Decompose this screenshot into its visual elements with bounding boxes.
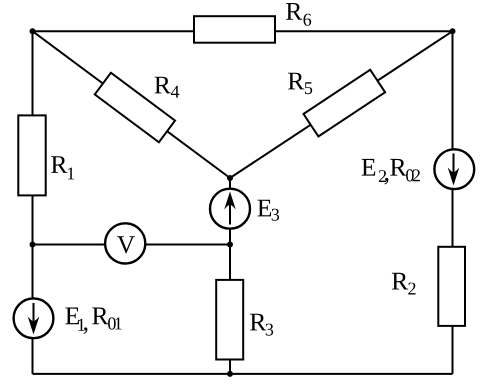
wire voltmeter branch: [33, 244, 231, 246]
node bottom-mid: [227, 371, 233, 377]
source E2, R02: [434, 149, 474, 189]
resistor R3: [216, 280, 243, 360]
arrow E1 (current direction): [33, 303, 35, 325]
resistor R1: [18, 115, 45, 195]
node left-mid: [30, 242, 36, 248]
node top-left: [30, 28, 36, 34]
label E3: [258, 200, 280, 221]
node top-right: [450, 28, 456, 34]
node middle (R4/R5/E3 junction): [227, 175, 233, 181]
resistor R6: [194, 16, 275, 43]
label V: [117, 236, 135, 253]
label E2, R02: [362, 159, 420, 185]
wire diagonal left (R4 branch): [33, 31, 231, 178]
source E1, R01: [14, 298, 54, 338]
wire top rail: [33, 30, 453, 32]
wire left vertical: [32, 31, 34, 374]
wire bottom rail: [33, 373, 453, 375]
resistor R2: [438, 247, 465, 326]
arrow E3 (current direction): [229, 198, 231, 225]
label E1, R01: [65, 308, 121, 334]
voltmeter V: [105, 223, 145, 263]
label R3: [250, 314, 273, 336]
resistor R4: [95, 73, 175, 142]
label R1: [51, 156, 74, 179]
wire diagonal right (R5 branch): [230, 31, 453, 178]
node mid-low (E3/V/R3 junction): [227, 242, 233, 248]
label R5: [288, 73, 312, 95]
label R2: [392, 273, 416, 295]
wire middle vertical: [229, 178, 231, 374]
wire right vertical: [452, 31, 454, 374]
label R4: [155, 77, 180, 98]
source E3: [210, 189, 250, 229]
arrow E2 (current direction): [453, 153, 455, 176]
label R6: [286, 3, 311, 26]
resistor R5: [303, 70, 385, 137]
